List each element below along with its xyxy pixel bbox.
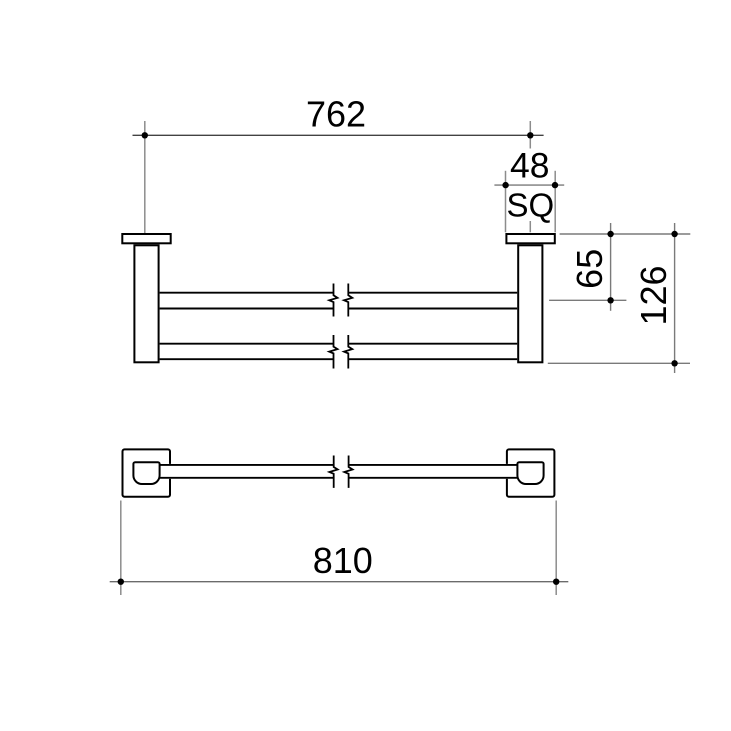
right post cross-section D (front view) (517, 462, 543, 484)
svg-text:762: 762 (306, 94, 366, 135)
rail (front view) white fill (160, 464, 518, 479)
dim 126 dimension line (674, 223, 676, 373)
dim 810 extension line left (120, 501, 122, 596)
dim 65 dot top (607, 231, 613, 237)
right wall flange plate (side view) (506, 234, 554, 243)
break mark front rail left (329, 456, 337, 488)
right square flange (front view) (507, 449, 555, 496)
left wall flange plate (side view) (122, 234, 170, 243)
dim 65 dot bottom (607, 297, 613, 303)
break mark front rail right (344, 456, 352, 488)
dim 48 dimension line (494, 184, 564, 186)
right post (side view) (518, 245, 542, 362)
dim 126 dot top (671, 231, 677, 237)
dim 762 dot right (527, 132, 533, 138)
dim 810 dimension line (110, 581, 569, 583)
break mark rail2 right (344, 335, 352, 369)
dim 65 dimension line (610, 223, 612, 311)
break mark rail2 left (329, 335, 337, 369)
break mark rail1 left (329, 284, 337, 317)
dim 48 dot left (502, 182, 508, 188)
svg-text:65: 65 (569, 249, 610, 289)
left post (side view) (134, 245, 158, 362)
dim 48 dot right (552, 182, 558, 188)
dim 810 dot left (118, 579, 124, 585)
dim 48 extension line left (505, 171, 507, 233)
rail 2 (bottom towel bar, side view) (160, 344, 518, 360)
dim 810 extension line right (555, 501, 557, 596)
dim 762 extension line right lower (529, 221, 531, 232)
svg-text:126: 126 (633, 265, 674, 325)
dim 810 dot right (553, 579, 559, 585)
dim 126 bottom extension line (548, 362, 690, 364)
dim 762 extension line right upper (529, 121, 531, 149)
dim 126 dot bottom (671, 360, 677, 366)
break mark rail1 right (344, 284, 352, 317)
rail (front view) edges (160, 465, 518, 478)
rail 1 (top towel bar, side view) (160, 293, 518, 309)
svg-text:SQ: SQ (506, 187, 554, 224)
dim 762 dot left (142, 132, 148, 138)
dim 762 dimension line (133, 134, 544, 136)
svg-text:810: 810 (313, 540, 373, 581)
svg-text:48: 48 (510, 146, 550, 186)
dim 48 extension line right (554, 171, 556, 233)
dim 762 extension line left (144, 121, 146, 233)
left post cross-section D (front view) (133, 462, 159, 484)
dim 65 bottom extension line (549, 299, 626, 301)
left square flange (front view) (123, 449, 171, 496)
dim 65/126 top extension line (560, 233, 691, 235)
